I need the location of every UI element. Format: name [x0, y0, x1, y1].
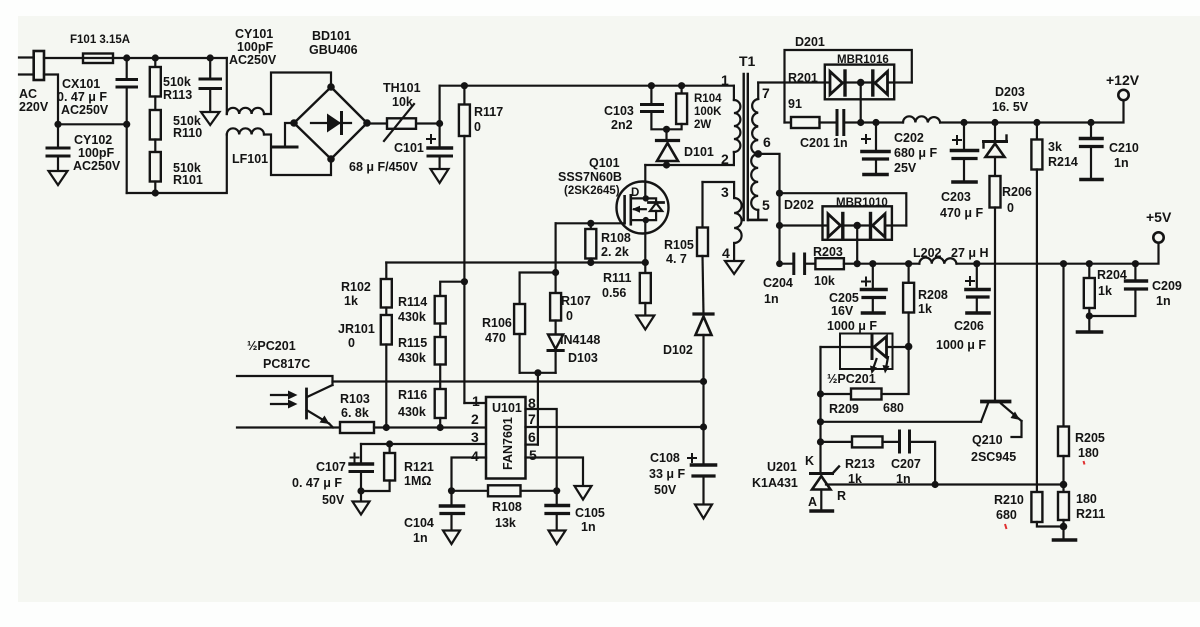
node C107/R121 bottom	[357, 487, 364, 494]
capacitor C105	[556, 491, 558, 506]
node C205	[869, 260, 876, 267]
svg-text:C101: C101	[394, 141, 424, 155]
wire plug to fuse	[44, 57, 127, 59]
node R108 gate top	[587, 220, 594, 227]
resistor R116	[435, 389, 446, 418]
node R205 top on 5V rail	[1060, 260, 1067, 267]
wire R114 top jog	[440, 282, 464, 296]
svg-text:D201: D201	[795, 35, 825, 49]
svg-text:R107: R107	[561, 294, 591, 308]
resistor R108 (2.2k)	[590, 223, 592, 229]
svg-text:+5V: +5V	[1146, 209, 1172, 225]
resistor R203	[815, 258, 844, 269]
node R209 left	[817, 390, 824, 397]
transistor Q101	[617, 182, 669, 234]
ground CY101	[201, 112, 220, 125]
resistor R214	[1036, 123, 1038, 140]
capacitor CY101	[209, 58, 211, 79]
svg-text:C206: C206	[954, 319, 984, 333]
svg-text:10k: 10k	[392, 95, 413, 109]
body diode Q101	[646, 198, 656, 202]
node snubber corner D202	[776, 260, 783, 267]
wire cathode to 12V rail	[860, 83, 862, 123]
node source/R111	[642, 259, 649, 266]
svg-text:R110: R110	[173, 126, 202, 140]
capacitor C107	[360, 444, 362, 464]
ground C104	[443, 531, 460, 545]
wire pin7 rail	[526, 426, 704, 428]
svg-text:6. 8k: 6. 8k	[341, 406, 369, 420]
ground C203	[953, 180, 976, 184]
wire gate rail	[556, 222, 625, 224]
svg-text:R102: R102	[341, 280, 371, 294]
svg-text:50V: 50V	[654, 483, 677, 497]
node pin7 rail / C108	[700, 423, 707, 430]
svg-text:IN4148: IN4148	[560, 333, 600, 347]
svg-text:4. 7: 4. 7	[666, 252, 687, 266]
node R117 top	[461, 82, 468, 89]
svg-text:½PC201: ½PC201	[827, 372, 876, 386]
capacitor C206	[976, 264, 978, 289]
wire AC top rail	[127, 57, 227, 59]
capacitor C108	[688, 457, 696, 459]
svg-text:C203: C203	[941, 190, 971, 204]
svg-text:A: A	[808, 495, 817, 509]
svg-text:5: 5	[762, 197, 770, 213]
ground C210	[1081, 178, 1102, 182]
resistor R209	[821, 393, 852, 395]
svg-text:U201: U201	[767, 460, 797, 474]
node R101 bottom	[152, 189, 159, 196]
resistor R105	[701, 182, 703, 228]
svg-text:R210: R210	[994, 493, 1024, 507]
node JR101 bottom	[383, 424, 390, 431]
svg-text:430k: 430k	[398, 310, 426, 324]
node K1A431 cathode rail	[817, 418, 824, 425]
svg-text:R201: R201	[788, 71, 818, 85]
svg-text:13k: 13k	[495, 516, 516, 530]
svg-text:5: 5	[529, 447, 537, 463]
resistor R104	[680, 86, 682, 94]
svg-text:3: 3	[471, 429, 479, 445]
svg-text:GBU406: GBU406	[309, 43, 358, 57]
resistor R113	[154, 58, 156, 67]
svg-text:K1A431: K1A431	[752, 476, 798, 490]
svg-text:C108: C108	[650, 451, 680, 465]
node CY102/CX101 bottom left	[54, 121, 61, 128]
fuse F101	[83, 54, 113, 64]
wire Q210 base rail	[821, 421, 982, 423]
diode D103	[548, 335, 563, 350]
svg-text:180: 180	[1078, 446, 1099, 460]
node C103 top	[648, 82, 655, 89]
resistor R211	[1058, 492, 1069, 520]
svg-text:16V: 16V	[831, 304, 854, 318]
ground U201 anode	[811, 509, 833, 512]
capacitor C202	[875, 123, 877, 152]
labels 12V/5V rails	[763, 35, 1172, 352]
diode inside BD101	[311, 122, 351, 124]
svg-text:8: 8	[528, 395, 536, 411]
svg-text:510k: 510k	[163, 75, 191, 89]
wire pin6 stub	[526, 444, 538, 446]
svg-text:R101: R101	[173, 173, 203, 187]
svg-text:R204: R204	[1097, 268, 1127, 282]
svg-text:R214: R214	[1048, 155, 1078, 169]
bridge BD101 diamond	[294, 87, 367, 159]
node R205/R211 junction	[1060, 481, 1068, 489]
svg-text:R114: R114	[398, 295, 427, 309]
ground pin5	[575, 486, 592, 500]
node R113 top	[152, 54, 159, 61]
svg-text:R208: R208	[918, 288, 948, 302]
node C104 top	[448, 487, 455, 494]
node fuse/CX101 top	[123, 54, 130, 61]
wire drain	[644, 165, 646, 198]
node C105 top	[553, 487, 560, 494]
svg-text:0: 0	[566, 309, 573, 323]
node C210	[1087, 119, 1094, 126]
svg-text:C201: C201	[800, 136, 830, 150]
zener D203	[994, 123, 996, 142]
capacitor C204	[780, 263, 794, 265]
svg-text:+12V: +12V	[1106, 72, 1140, 88]
wire top rail corner to LF101 top coil	[226, 58, 228, 114]
wire U101 pin1	[464, 402, 486, 404]
node R208	[905, 260, 912, 267]
node R213 top	[817, 438, 824, 445]
svg-text:0. 47 μ F: 0. 47 μ F	[57, 90, 107, 104]
resistor R204	[1088, 264, 1090, 278]
node D202 common cathode	[853, 222, 861, 230]
capacitor C103	[650, 86, 652, 104]
capacitor C207	[898, 431, 901, 452]
capacitor C104	[450, 491, 452, 506]
T1 core	[743, 74, 745, 220]
capacitor C205	[872, 264, 874, 289]
svg-text:R213: R213	[845, 457, 875, 471]
resistor R115	[435, 337, 446, 365]
optocoupler PC201 phototransistor	[305, 389, 308, 418]
wire gate feed vertical	[554, 223, 556, 272]
wire pin8	[526, 409, 557, 491]
resistor R111	[644, 263, 646, 274]
svg-text:100pF: 100pF	[237, 40, 273, 54]
svg-text:180: 180	[1076, 492, 1097, 506]
svg-text:2SC945: 2SC945	[971, 450, 1016, 464]
ground C205	[863, 311, 885, 315]
node R214	[1033, 119, 1040, 126]
node R104/C103/D101	[663, 126, 670, 133]
svg-text:U101: U101	[492, 401, 522, 415]
svg-text:½PC201: ½PC201	[247, 339, 296, 353]
svg-text:SSS7N60B: SSS7N60B	[558, 170, 622, 184]
svg-text:R116: R116	[398, 388, 427, 402]
wire Vcc rail to D102 node	[333, 380, 704, 382]
wire bottom AC to CY102 node	[44, 75, 58, 125]
svg-text:1k: 1k	[848, 472, 862, 486]
svg-text:33 μ F: 33 μ F	[649, 467, 685, 481]
svg-text:470: 470	[485, 331, 506, 345]
svg-text:MBR1010: MBR1010	[836, 197, 888, 209]
svg-text:R111: R111	[603, 271, 632, 285]
svg-text:C105: C105	[575, 506, 605, 520]
T1 pin5 end stub	[749, 219, 767, 222]
svg-text:6: 6	[528, 429, 536, 445]
resistor R102	[385, 263, 387, 280]
svg-text:CX101: CX101	[62, 77, 100, 91]
svg-text:D202: D202	[784, 198, 814, 212]
wire opto emitter rail	[237, 426, 340, 428]
svg-text:100K: 100K	[694, 106, 722, 118]
inductor LF101 top winding	[227, 108, 264, 114]
svg-text:470 μ F: 470 μ F	[940, 206, 983, 220]
svg-text:C210: C210	[1109, 141, 1139, 155]
node C207 to ref rail	[932, 481, 939, 488]
svg-text:R103: R103	[340, 392, 370, 406]
wire pin6 vertical	[537, 373, 539, 445]
svg-text:C103: C103	[604, 104, 634, 118]
capacitor CX101	[126, 58, 128, 79]
svg-text:R205: R205	[1075, 431, 1105, 445]
resistor R121	[389, 444, 391, 453]
wire LED cathode rail down	[819, 347, 821, 474]
wire pin6 tap to D202 feed	[758, 154, 779, 264]
thermistor TH101	[367, 122, 440, 124]
svg-text:4: 4	[722, 245, 730, 261]
svg-text:3k: 3k	[1048, 140, 1062, 154]
svg-text:1000 μ F: 1000 μ F	[936, 338, 986, 352]
node CY101 top	[207, 54, 214, 61]
capacitor C201	[836, 111, 839, 135]
T1 secondary winding pin7-6-5	[757, 83, 759, 100]
wire R214 to R210	[1036, 170, 1038, 493]
svg-text:7: 7	[762, 85, 770, 101]
node C101	[436, 120, 443, 127]
wire +5V rail	[857, 263, 919, 265]
svg-text:91: 91	[788, 97, 802, 111]
node CX101 bottom	[123, 121, 130, 128]
labels HV/Q101 section	[338, 53, 771, 365]
svg-text:Q210: Q210	[972, 433, 1003, 447]
svg-text:AC250V: AC250V	[73, 159, 121, 173]
svg-text:R117: R117	[474, 105, 503, 119]
svg-text:C207: C207	[891, 457, 921, 471]
resistor R106	[520, 273, 556, 305]
svg-text:680 μ F: 680 μ F	[894, 146, 937, 160]
resistor R206	[994, 157, 996, 176]
svg-text:2: 2	[471, 411, 479, 427]
svg-text:680: 680	[883, 401, 904, 415]
svg-text:R121: R121	[404, 460, 434, 474]
LED PC201	[821, 346, 873, 348]
svg-text:430k: 430k	[398, 351, 426, 365]
svg-text:JR101: JR101	[338, 322, 375, 336]
wire AC line bottom	[19, 73, 34, 75]
ground C202	[864, 173, 887, 177]
ground C108	[695, 505, 712, 519]
svg-text:C209: C209	[1152, 279, 1182, 293]
svg-text:1k: 1k	[918, 302, 932, 316]
svg-text:T1: T1	[739, 53, 756, 69]
wire source	[644, 220, 646, 262]
svg-text:100pF: 100pF	[78, 146, 114, 160]
resistor R107	[554, 273, 556, 294]
svg-text:R206: R206	[1002, 185, 1032, 199]
svg-text:D: D	[631, 187, 639, 199]
node R108 bottom on source rail	[587, 259, 594, 266]
ac terminal mark at bridge left	[285, 123, 294, 147]
T1 aux winding pin3-pin4	[703, 182, 735, 198]
capacitor C209	[1134, 264, 1136, 281]
light arrows into PC201	[271, 394, 292, 396]
capacitor CY102	[57, 124, 59, 147]
svg-text:F101 3.15A: F101 3.15A	[70, 34, 130, 46]
svg-text:0: 0	[348, 336, 355, 350]
svg-text:2W: 2W	[694, 119, 711, 131]
svg-text:BD101: BD101	[312, 29, 351, 43]
svg-text:27 μ H: 27 μ H	[951, 246, 989, 260]
inductor L201	[903, 116, 940, 122]
resistor R103	[340, 422, 374, 433]
svg-text:LF101: LF101	[232, 152, 268, 166]
wire cathode to 5V rail	[856, 226, 858, 264]
wire AC line top	[19, 56, 34, 58]
node R210/R211 bottom	[1060, 523, 1068, 531]
ground T1 pin4	[725, 261, 743, 274]
svg-text:10k: 10k	[814, 274, 835, 288]
resistor R114	[435, 296, 446, 324]
wire T1 pin7 rail	[758, 81, 912, 83]
resistor R213	[821, 441, 853, 443]
diode pack D202 MBR1010	[823, 206, 892, 240]
svg-text:3: 3	[721, 184, 729, 200]
node snubber out	[857, 119, 864, 126]
node R116 bottom	[437, 424, 444, 431]
svg-text:4: 4	[471, 448, 479, 464]
svg-text:25V: 25V	[894, 161, 917, 175]
svg-text:C202: C202	[894, 131, 924, 145]
node Vcc rail / D102	[700, 378, 707, 385]
node R204/C209 bottom	[1086, 312, 1093, 319]
node D201 common cathode	[857, 79, 865, 87]
svg-text:1n: 1n	[1156, 294, 1171, 308]
svg-text:1: 1	[721, 72, 729, 88]
diode pack D201 MBR1016	[825, 65, 894, 100]
svg-text:R115: R115	[398, 336, 427, 350]
wire +12V rail	[861, 121, 903, 123]
wire D201 anode bypass loop	[785, 50, 912, 83]
svg-text:1n: 1n	[413, 531, 428, 545]
svg-text:C204: C204	[763, 276, 793, 290]
node C209 top	[1132, 260, 1139, 267]
svg-text:R108: R108	[492, 500, 522, 514]
svg-text:1n: 1n	[581, 520, 596, 534]
ground C105	[549, 531, 566, 545]
transistor Q210	[982, 400, 1010, 404]
inductor LF101 bottom winding	[227, 128, 264, 134]
ground C101	[431, 169, 449, 183]
node D203	[991, 119, 998, 126]
svg-text:D101: D101	[684, 145, 714, 159]
svg-text:C205: C205	[829, 291, 859, 305]
node R204 top	[1086, 260, 1093, 267]
ground C107	[360, 491, 362, 502]
resistor R210	[1031, 492, 1042, 522]
wire LF101 bottom to bridge bottom	[264, 135, 331, 176]
svg-text:C104: C104	[404, 516, 434, 530]
svg-text:R104: R104	[694, 93, 722, 105]
resistor R208	[907, 264, 909, 283]
svg-text:430k: 430k	[398, 405, 426, 419]
ground C206	[967, 311, 989, 315]
AC plug connector	[34, 51, 44, 80]
svg-text:CY102: CY102	[74, 133, 112, 147]
svg-text:6: 6	[763, 134, 771, 150]
node C206	[973, 260, 980, 267]
wire feedback rail to U101 pin2	[374, 426, 486, 428]
shunt regulator U201 K1A431	[811, 472, 833, 475]
svg-text:16. 5V: 16. 5V	[992, 100, 1029, 114]
svg-text:AC250V: AC250V	[229, 53, 277, 67]
svg-text:1n: 1n	[896, 472, 911, 486]
node D101 anode / drain rail	[663, 161, 670, 168]
svg-text:L202: L202	[913, 246, 942, 260]
svg-text:0. 47 μ F: 0. 47 μ F	[292, 476, 342, 490]
ground R204	[1078, 330, 1102, 334]
capacitor C101	[439, 86, 441, 148]
svg-text:C107: C107	[316, 460, 346, 474]
svg-text:R211: R211	[1076, 507, 1105, 521]
wire source rail	[386, 261, 645, 263]
node D202 anode left	[776, 222, 783, 229]
T1 primary winding pin1-pin2	[733, 86, 735, 100]
wire drain rail	[645, 164, 734, 166]
node R203 out	[854, 260, 861, 267]
resistor R205	[1062, 264, 1064, 427]
inductor L202	[919, 258, 956, 264]
svg-text:2n2: 2n2	[611, 118, 633, 132]
node C203	[960, 119, 967, 126]
svg-text:R105: R105	[664, 238, 694, 252]
wire pin3	[361, 443, 486, 445]
svg-text:K: K	[805, 454, 814, 468]
svg-text:7: 7	[528, 411, 536, 427]
svg-text:0.56: 0.56	[602, 286, 626, 300]
wire opto collector top	[237, 376, 333, 385]
wire D103/R106 bottom join	[520, 372, 556, 374]
svg-text:0: 0	[474, 120, 481, 134]
svg-text:220V: 220V	[19, 100, 49, 114]
svg-text:R209: R209	[829, 402, 859, 416]
svg-text:1MΩ: 1MΩ	[404, 474, 431, 488]
svg-text:1k: 1k	[1098, 284, 1112, 298]
svg-text:Q101: Q101	[589, 156, 620, 170]
ground CY102	[49, 171, 68, 185]
svg-text:D203: D203	[995, 85, 1025, 99]
resistor R110	[150, 110, 161, 140]
svg-text:PC817C: PC817C	[263, 357, 310, 371]
resistor R117	[463, 86, 465, 105]
LED emission arrows	[873, 359, 877, 369]
node T1 pin6 tap	[754, 150, 762, 158]
wire D202 anode bypass loop	[780, 193, 907, 225]
labels bottom right section	[752, 268, 1182, 522]
node LED anode / R208	[905, 343, 913, 351]
svg-text:50V: 50V	[322, 493, 345, 507]
node R104 top	[678, 82, 685, 89]
ground R111	[636, 316, 654, 330]
